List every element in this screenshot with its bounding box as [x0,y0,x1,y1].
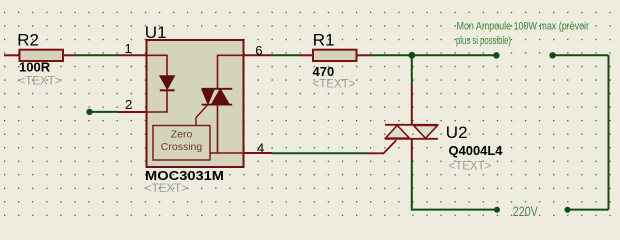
triac U2 MT2 pin [411,85,413,125]
triac U2 symbol [385,125,438,139]
internal gate wire [196,105,208,126]
resistor R2 [4,50,75,61]
svg-text:2: 2 [125,97,132,112]
lamp terminal dot right [549,52,555,58]
wire bottom left to 220V terminal [412,209,497,210]
svg-text:220V: 220V [513,203,539,219]
svg-text:Mon Ampoule 100W max (prévoir: Mon Ampoule 100W max (prévoir [457,21,590,33]
svg-text:100R: 100R [19,59,51,74]
lamp terminal dot left [493,52,499,58]
pin 2 stub [118,111,146,113]
LED anode lead [147,55,168,76]
wire pin 2 [90,111,119,113]
wire node to lamp terminal [412,54,496,56]
svg-text:MOC3031M: MOC3031M [145,168,224,183]
svg-text:470: 470 [313,64,335,79]
svg-text:<TEXT>: <TEXT> [313,78,356,90]
svg-text:Zero: Zero [171,129,193,141]
svg-text:U1: U1 [145,23,167,42]
LED cathode bar [160,89,175,91]
svg-text:plus si possible): plus si possible) [456,35,511,47]
svg-text:R1: R1 [313,31,335,50]
pin 6 stub [244,54,273,56]
wire node down to U2 [411,55,413,85]
svg-text:Crossing: Crossing [161,141,203,153]
svg-text:<TEXT>: <TEXT> [19,75,62,87]
internal wire ZC to pin 4 [210,152,244,154]
wire U2 MT1 down [411,159,413,209]
right rail wire [608,55,610,209]
supply terminal dot right [565,207,571,213]
zero crossing block [153,126,210,161]
pin 1 stub [118,54,146,56]
internal triac lower lead [217,105,219,153]
svg-text:<TEXT>: <TEXT> [145,183,188,195]
svg-text:R2: R2 [17,31,39,50]
wire pin 6 to R1 [272,54,300,56]
junction node at R1 output [409,52,416,59]
svg-text:6: 6 [255,43,262,58]
wire R1 to node [371,54,413,56]
internal triac bottom bar [202,104,233,106]
internal triac top bar [202,88,233,90]
wire lamp to right rail [553,54,609,56]
svg-text:U2: U2 [446,123,468,142]
internal triac lead from pin 6 [218,55,244,88]
svg-text:4: 4 [257,140,264,155]
triac U2 gate lead [367,140,396,153]
svg-text:1: 1 [125,41,132,56]
resistor R1 [300,50,371,61]
LED cathode lead [147,91,168,112]
pin 4 stub [244,152,273,154]
svg-text:<TEXT>: <TEXT> [449,161,492,173]
wire R2 to U1 pin 1 [75,54,118,56]
optocoupler U1 body MOC3031M [147,40,244,167]
wire 220V to right rail [568,209,609,211]
internal triac right triangle [212,89,230,104]
LED D1 triangle [160,76,175,90]
internal triac left triangle [202,89,214,104]
wire end dot pin 2 [86,109,92,115]
triac U2 MT1 pin [411,139,413,159]
supply terminal dot left [494,207,500,213]
svg-text:Q4004L4: Q4004L4 [449,143,504,158]
wire pin 4 to U2 gate [272,152,367,154]
